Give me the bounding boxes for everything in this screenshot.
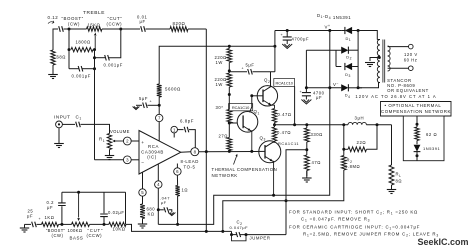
wire Q2 collector bbox=[263, 72, 271, 92]
wire C2 right bbox=[240, 234, 286, 236]
ground below R1 bbox=[105, 155, 114, 157]
junction 22 ohm right riser bbox=[376, 123, 379, 126]
treble pot wiper arrow bbox=[94, 36, 96, 50]
svg-text:μF: μF bbox=[316, 95, 322, 100]
wire D2 cathode to bus bbox=[348, 49, 358, 51]
junction Q1 emitter at output bus bbox=[250, 150, 253, 153]
svg-text:10KΩ: 10KΩ bbox=[113, 227, 126, 232]
main feedback bus vertical x206 bbox=[205, 29, 207, 231]
diode D4 bbox=[341, 84, 348, 91]
svg-text:“BOOST”: “BOOST” bbox=[46, 228, 65, 233]
wire D3 link vertical bbox=[335, 50, 337, 66]
wire pin3 from feedback bus bbox=[95, 159, 124, 161]
capacitor 0.001uF mid treble bbox=[105, 55, 110, 61]
rectifier cathode bus x358 bbox=[357, 31, 359, 88]
wire bootstrap left bbox=[229, 71, 247, 73]
wire pin5 stem up bbox=[142, 172, 144, 189]
svg-text:(CW): (CW) bbox=[68, 21, 80, 26]
wire pin4 down bbox=[157, 188, 159, 224]
svg-text:+: + bbox=[300, 90, 303, 94]
wire bass ground stem bbox=[24, 224, 26, 228]
svg-text:0.47Ω: 0.47Ω bbox=[277, 130, 291, 135]
ground below 47 ohm bbox=[302, 177, 312, 179]
svg-text:1Ω: 1Ω bbox=[182, 188, 189, 193]
junction cap2 left bbox=[93, 56, 96, 59]
resistor 330 ohm bbox=[304, 128, 309, 142]
inductor 3uH bbox=[348, 122, 366, 124]
junction chain mid bbox=[228, 93, 231, 96]
ground bass left bbox=[20, 227, 29, 229]
wire node T1 down to 1800 left bbox=[68, 29, 70, 50]
wire output to RL bbox=[391, 125, 393, 165]
junction C2 right bbox=[245, 233, 248, 236]
junction bass wiper bbox=[77, 191, 80, 194]
capacitor 6.8pF bbox=[184, 127, 189, 133]
wire 220 chain a bbox=[228, 46, 230, 48]
resistor RL 8 ohm bbox=[389, 165, 394, 185]
capacitor 5uF bootstrap bbox=[248, 69, 253, 75]
wire diode to box bottom bbox=[416, 152, 418, 161]
wire pin1 to 6.8pF cap bbox=[178, 129, 184, 131]
svg-text:C1: C1 bbox=[76, 114, 82, 120]
wire V- bus to Q3 and corner bbox=[269, 150, 330, 195]
pin 6 circle bbox=[174, 168, 181, 175]
svg-text:C1 =0.047μF. REMOVE R3: C1 =0.047μF. REMOVE R3 bbox=[301, 216, 370, 222]
ground below input jack bbox=[54, 143, 64, 145]
V- rail wire bbox=[306, 87, 341, 89]
wire pin5 to 680K bbox=[142, 196, 144, 204]
wire 1 ohm down to Vminus wire bbox=[177, 196, 179, 224]
680K gnd stem bbox=[142, 219, 144, 225]
wire 27 to output bus bbox=[228, 150, 230, 153]
resistor R2 1.8M bbox=[341, 156, 346, 171]
wire 0.47 junction bbox=[274, 123, 276, 128]
svg-text:R1: R1 bbox=[99, 137, 105, 143]
resistor 1 ohm bbox=[175, 186, 179, 197]
junction D1 anode bbox=[357, 29, 360, 32]
wire 5uF branch bbox=[136, 104, 142, 106]
transistor Q3 circle bbox=[259, 141, 281, 163]
svg-text:D1: D1 bbox=[346, 36, 352, 42]
box optional network body bbox=[403, 116, 444, 161]
svg-text:3: 3 bbox=[126, 158, 129, 163]
wire y46 to V+ drop bbox=[165, 45, 275, 47]
node T1 junction bbox=[68, 28, 71, 31]
jumper loop around C2 bbox=[232, 235, 247, 241]
junction V+ at rectifier drop bbox=[328, 29, 331, 32]
resistor 220 ohm 1W upper bbox=[227, 49, 232, 63]
wire secondary top lead bbox=[377, 39, 380, 41]
cw-rotation squiggle under 0.12 bbox=[48, 21, 54, 24]
wire pin3 to triangle bbox=[131, 159, 139, 161]
output wire y124.7 bbox=[275, 124, 349, 126]
wire input jack ground stem bbox=[58, 128, 60, 141]
junction 1 ohm at wire bbox=[176, 223, 179, 226]
wire cap2 left stub bbox=[95, 57, 106, 59]
svg-text:INPUT: INPUT bbox=[54, 114, 71, 119]
junction 0.047 cap branch bbox=[157, 208, 160, 211]
svg-text:R2: R2 bbox=[347, 158, 353, 164]
V+ rail wire bbox=[275, 30, 342, 32]
ground 5uF branch bbox=[133, 107, 140, 110]
junction 62 ohm top bbox=[416, 123, 419, 126]
junction C2 left bbox=[230, 233, 233, 236]
wire Q2 emitter with arrow bbox=[263, 100, 275, 108]
label box RCA1C10 for Q2 bbox=[274, 79, 295, 87]
wire cap3 right bbox=[82, 68, 95, 70]
wire 10K jog to bottom bus bbox=[126, 224, 232, 231]
wire 0.2 cap to top wire bbox=[61, 192, 63, 203]
pin 3 circle bbox=[123, 156, 131, 164]
svg-text:5μF: 5μF bbox=[246, 62, 255, 67]
wire pin7 to 5uF node bbox=[158, 105, 160, 114]
junction 330/47 bbox=[305, 148, 308, 151]
junction 1800 left bbox=[68, 48, 71, 51]
wire 1K to pot bbox=[59, 223, 72, 225]
wire R1 to ground bbox=[109, 150, 111, 154]
pin 7 circle bbox=[156, 114, 163, 121]
junction V+ drop at y46 bbox=[273, 45, 276, 48]
wire 820 to main feedback bus corner bbox=[188, 28, 206, 30]
wire 47 to ground bbox=[306, 171, 308, 177]
wire from Q2 label box down bbox=[294, 86, 296, 124]
wire pin8 output to bus and Q3 base bbox=[199, 150, 265, 152]
wire D1 node to transformer top bbox=[358, 31, 377, 40]
ground 4700uF no2 bbox=[301, 100, 311, 105]
svg-text:(CCW): (CCW) bbox=[87, 233, 103, 238]
wire 0.02 cap bottom bbox=[103, 217, 105, 225]
svg-text:RCA1C10: RCA1C10 bbox=[275, 80, 293, 85]
svg-text:2: 2 bbox=[126, 139, 129, 144]
svg-text:0.001μF: 0.001μF bbox=[104, 62, 123, 67]
svg-text:5μF: 5μF bbox=[139, 96, 148, 101]
wire bass top corner down bbox=[125, 192, 127, 224]
transformer secondary winding bbox=[377, 40, 380, 83]
svg-text:“BOOST”: “BOOST” bbox=[62, 16, 84, 21]
volume wiper arrow to pin 2 bbox=[115, 140, 124, 142]
wire 0.01 cap to 820 bbox=[146, 28, 171, 30]
junction D4 at bus bbox=[357, 86, 360, 89]
svg-text:1W: 1W bbox=[216, 60, 223, 65]
wire 5uF to node bbox=[148, 104, 160, 106]
wire Q3 collector bbox=[265, 141, 275, 147]
wire 62 ohm top stem bbox=[416, 116, 418, 127]
4700uF no2 stem bbox=[305, 88, 307, 93]
svg-text:1N5391: 1N5391 bbox=[423, 146, 441, 151]
junction pin7 bias 5uF bbox=[158, 104, 161, 107]
junction feedback bus top bbox=[93, 67, 96, 70]
input gnd stem2 bbox=[58, 141, 60, 144]
ground 0.047 cap bbox=[168, 213, 175, 216]
wire bootstrap right bbox=[253, 71, 275, 73]
wire 68ohm to ground bbox=[52, 65, 54, 71]
svg-text:60 Hz: 60 Hz bbox=[404, 57, 418, 62]
wire pin1 stem bbox=[173, 133, 175, 138]
potentiometer 100K bass bbox=[72, 222, 90, 226]
junction main bus at bottom wire bbox=[205, 230, 208, 233]
capacitor 0.01uF feedback bbox=[141, 26, 146, 32]
junction 220 chain top bbox=[228, 45, 231, 48]
wire 0.047 to ground bbox=[169, 210, 172, 213]
wire Q1 base bar entry bbox=[242, 117, 244, 119]
label box RCA1C10 for Q1 bbox=[229, 104, 253, 111]
wire pin4 stem up bbox=[157, 164, 159, 181]
resistor 22 ohm bbox=[348, 147, 367, 152]
rectifier bus vertical x329.8 bbox=[329, 31, 331, 88]
potentiometer R1 volume bbox=[107, 134, 111, 150]
resistor 1800 ohm bbox=[71, 47, 93, 51]
resistor 10K bass bbox=[109, 222, 126, 226]
svg-text:5: 5 bbox=[141, 190, 144, 195]
svg-text:62 Ω: 62 Ω bbox=[426, 132, 437, 137]
svg-text:RCA1C10: RCA1C10 bbox=[232, 105, 250, 110]
resistor 0.47 ohm lower bbox=[272, 127, 276, 141]
junction V- at rectifier bus bbox=[328, 86, 331, 89]
R1 gnd stem bbox=[109, 150, 111, 156]
svg-text:4700μF: 4700μF bbox=[292, 36, 310, 41]
svg-text:• OPTIONAL THERMAL: • OPTIONAL THERMAL bbox=[385, 103, 442, 108]
svg-text:68Ω: 68Ω bbox=[57, 54, 66, 59]
svg-text:μF: μF bbox=[161, 200, 167, 205]
svg-text:30*: 30* bbox=[216, 105, 224, 110]
wire 25uF to 1K bbox=[37, 223, 42, 225]
junction bass riser at bottom wire bbox=[221, 230, 224, 233]
wire jog down to C2 level bbox=[231, 231, 233, 234]
AC plug terminal top bbox=[409, 44, 414, 49]
svg-text:μF: μF bbox=[27, 214, 33, 219]
resistor 27 ohm bbox=[227, 138, 232, 151]
wire chain to 27 ohm bbox=[228, 123, 230, 138]
wire cap 0.12 to node T1 bbox=[64, 28, 87, 30]
svg-text:D4: D4 bbox=[345, 93, 351, 99]
svg-text:100KΩ: 100KΩ bbox=[68, 228, 83, 233]
svg-text:(CW): (CW) bbox=[52, 233, 64, 238]
svg-text:0.12: 0.12 bbox=[48, 15, 59, 20]
wire RL to ground bbox=[391, 185, 393, 188]
svg-text:330Ω: 330Ω bbox=[311, 132, 323, 137]
ground 4700uF no1 bbox=[282, 44, 292, 49]
svg-text:120V AC TO 26.8V CT AT 1 A: 120V AC TO 26.8V CT AT 1 A bbox=[355, 94, 436, 99]
ground below RL bbox=[387, 189, 396, 191]
rectifier bus continues down x329.8 bbox=[329, 88, 331, 150]
wire 62 to diode bbox=[416, 141, 418, 145]
resistor 47 ohm bbox=[304, 155, 309, 171]
wire treble pot to node T2 bbox=[102, 28, 121, 30]
wire 68ohm gnd stem bbox=[52, 71, 54, 75]
svg-text:8Ω: 8Ω bbox=[396, 179, 403, 184]
wire 22 left stub bbox=[344, 148, 348, 150]
resistor 820 ohm bbox=[170, 27, 188, 32]
wire D3 cathode wire bbox=[336, 66, 341, 68]
wire pin4/pin6 V- bus bbox=[158, 195, 269, 224]
wire inductor to RL corner bbox=[366, 124, 391, 126]
wire secondary bottom lead bbox=[379, 82, 381, 84]
svg-text:6: 6 bbox=[176, 169, 179, 174]
wire pin7 stem bbox=[158, 122, 160, 141]
svg-text:NETWORK: NETWORK bbox=[212, 173, 238, 178]
svg-text:0.02μF: 0.02μF bbox=[108, 210, 124, 215]
junction bass pot right bbox=[103, 223, 106, 226]
V- drop from D2 wire bbox=[305, 50, 307, 88]
svg-text:RCA1C11: RCA1C11 bbox=[278, 141, 299, 146]
wire primary top to plug bbox=[388, 46, 409, 48]
junction diode bottom bbox=[416, 154, 419, 157]
wire Q2 base bbox=[252, 95, 263, 97]
wire Q3 emitter with arrow bbox=[265, 156, 274, 195]
wire 0.2 cap stem bbox=[61, 206, 63, 224]
resistor 680K bbox=[140, 204, 145, 219]
svg-text:27Ω: 27Ω bbox=[219, 133, 228, 138]
wire T1 down to cap3 level bbox=[68, 50, 70, 69]
transformer primary winding bbox=[388, 46, 391, 71]
input phono jack bbox=[56, 121, 63, 128]
resistor 220 ohm 1W lower bbox=[227, 73, 232, 87]
resistor 30 ohm R3 bbox=[227, 110, 232, 124]
ground below 680K bbox=[138, 223, 147, 225]
wire center tap to ground bbox=[370, 58, 379, 62]
transistor Q1 circle bbox=[237, 112, 258, 133]
wire R2 down and left to feedback junction bbox=[286, 170, 344, 201]
svg-text:Q3: Q3 bbox=[260, 135, 266, 141]
junction 22 left bbox=[342, 148, 345, 151]
svg-text:D2: D2 bbox=[346, 54, 352, 60]
capacitor 0.12uF treble bbox=[59, 26, 64, 32]
bass wiper arrow down bbox=[78, 192, 80, 217]
junction 1800 right / wiper bbox=[93, 48, 96, 51]
wire bus to transformer bottom bbox=[358, 83, 378, 88]
svg-text:V+: V+ bbox=[325, 24, 331, 29]
svg-text:“CUT”: “CUT” bbox=[88, 228, 104, 233]
svg-text:6.8pF: 6.8pF bbox=[180, 118, 194, 123]
pin 4 circle bbox=[155, 181, 162, 188]
wire to 0.047 cap bbox=[158, 209, 164, 211]
4700uF no1 stem bbox=[286, 31, 288, 37]
resistor 68 ohm bbox=[51, 50, 55, 65]
RL gnd stem2 bbox=[391, 185, 393, 190]
svg-text:RL: RL bbox=[396, 172, 402, 178]
wire bass left bbox=[25, 223, 32, 225]
svg-text:SeekIC.com: SeekIC.com bbox=[418, 237, 469, 247]
potentiometer 15K treble element bbox=[87, 27, 103, 31]
svg-text:0.047μF: 0.047μF bbox=[230, 225, 249, 230]
svg-text:(CCW): (CCW) bbox=[107, 21, 123, 26]
pin 2 circle bbox=[123, 137, 131, 145]
wire pin2 to triangle bbox=[131, 140, 139, 142]
output node junction bbox=[273, 123, 276, 126]
svg-text:OR EQUIVALENT: OR EQUIVALENT bbox=[387, 88, 429, 93]
diode D2 bbox=[341, 47, 348, 54]
capacitor 25uF bass bbox=[32, 222, 37, 228]
svg-text:1.8MΩ: 1.8MΩ bbox=[345, 164, 360, 169]
wire C1 to volume pot top bbox=[81, 124, 110, 133]
wire T2 to 0.01 cap bbox=[121, 28, 140, 30]
svg-text:μF: μF bbox=[47, 205, 53, 210]
ground center tap bbox=[365, 62, 375, 64]
diode D1 bbox=[345, 27, 352, 34]
svg-text:TREBLE: TREBLE bbox=[83, 10, 105, 16]
svg-text:+: + bbox=[242, 66, 245, 70]
wire Q1 base bbox=[229, 122, 237, 124]
wire apex to pin8 bbox=[181, 151, 191, 154]
junction output bus at feedback bus bbox=[205, 150, 208, 153]
wire cap3 left bbox=[69, 68, 79, 70]
capacitor C2 0.047uF bbox=[236, 232, 241, 237]
wire D2 anode from V- corner bbox=[306, 49, 341, 51]
svg-text:FOR CERAMIC CARTRIDGE INPUT: C: FOR CERAMIC CARTRIDGE INPUT: C1=0.0047μF bbox=[289, 224, 420, 230]
AC plug terminal bottom bbox=[409, 66, 414, 71]
wire 330 to 47 bbox=[306, 142, 308, 155]
junction Q1 base tap bbox=[228, 122, 231, 125]
svg-text:1800Ω: 1800Ω bbox=[76, 39, 91, 44]
4700uF no2 lower stem bbox=[305, 96, 307, 100]
svg-text:7: 7 bbox=[158, 116, 161, 121]
wire 220 chain c bbox=[228, 87, 230, 110]
wire 0.02 cap stem bbox=[103, 192, 105, 213]
wire Q1 collector up to Q2 base bbox=[250, 96, 252, 113]
svg-text:μF: μF bbox=[140, 19, 146, 24]
svg-text:V−: V− bbox=[333, 82, 339, 87]
wire jack to C1 bbox=[62, 123, 75, 125]
svg-text:D1-D4 1N5391: D1-D4 1N5391 bbox=[317, 13, 351, 20]
resistor 5600 ohm bbox=[157, 84, 162, 97]
svg-text:3μH: 3μH bbox=[355, 116, 365, 121]
svg-text:+: + bbox=[141, 141, 144, 146]
wire Q1 emitter with arrow bbox=[243, 126, 252, 151]
svg-text:47Ω: 47Ω bbox=[312, 160, 321, 165]
pin 1 circle bbox=[171, 126, 178, 133]
wire cap2 right to T2 drop bbox=[109, 29, 121, 58]
svg-text:0.47Ω: 0.47Ω bbox=[278, 112, 292, 117]
capacitor C1 input bbox=[76, 122, 81, 128]
svg-text:(IC): (IC) bbox=[147, 155, 157, 160]
wire 220 chain b bbox=[228, 63, 230, 74]
svg-text:KΩ: KΩ bbox=[148, 211, 155, 216]
junction feedback net bbox=[285, 199, 288, 202]
junction bootstrap tap bbox=[228, 69, 231, 72]
junction 27 ohm at output bus bbox=[228, 150, 231, 153]
wire 330 stub bbox=[306, 125, 308, 128]
svg-text:+: + bbox=[281, 33, 284, 37]
transistor Q2 circle bbox=[257, 86, 277, 106]
capacitor 0.02uF bass bbox=[100, 214, 108, 217]
wire 5600 up to supply wire bbox=[159, 46, 165, 84]
wire 680K to ground bbox=[142, 219, 144, 222]
svg-text:1KΩ: 1KΩ bbox=[45, 215, 55, 220]
wire 5600 to pin7 node bbox=[158, 97, 160, 105]
box optional thermal network label bbox=[381, 102, 452, 117]
svg-text:820Ω: 820Ω bbox=[173, 21, 186, 26]
junction Q3 emitter at V- bus bbox=[272, 194, 275, 197]
capacitor 0.047uF pin4 bbox=[164, 207, 169, 212]
svg-text:TO-5: TO-5 bbox=[184, 164, 196, 169]
wire pin6 stem up bbox=[176, 164, 178, 168]
resistor 0.47 ohm upper bbox=[272, 109, 276, 123]
junction output to 22/R2 branch bbox=[342, 123, 345, 126]
svg-text:Q2: Q2 bbox=[264, 78, 270, 84]
transformer core lines bbox=[383, 40, 385, 83]
resistor 62 ohm bbox=[415, 127, 419, 141]
wire D1 cathode to rail bbox=[342, 30, 345, 32]
diode D3 bbox=[345, 63, 352, 70]
transformer center tap bbox=[378, 56, 381, 59]
node T2 junction bbox=[119, 28, 122, 31]
svg-text:FOR STANDARD INPUT: SHORT C2;: FOR STANDARD INPUT: SHORT C2; R1 =250 KΩ bbox=[289, 209, 418, 215]
svg-text:“CUT”: “CUT” bbox=[108, 16, 123, 21]
junction label-box drop bbox=[293, 123, 296, 126]
svg-text:4: 4 bbox=[157, 182, 160, 187]
junction 4700uF no2 bbox=[305, 86, 308, 89]
V+ corner down to bootstrap node bbox=[274, 31, 276, 72]
